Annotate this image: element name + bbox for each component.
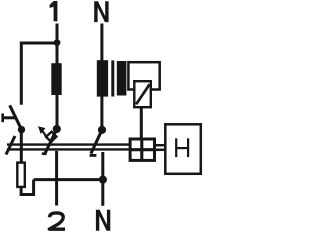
crossed square horizontal bar — [130, 148, 154, 151]
test resistor R1 — [17, 163, 25, 187]
neutral blade foot tick — [90, 154, 97, 157]
wire: test branch from node A — [21, 43, 57, 105]
wire: test return to neutral — [34, 178, 104, 181]
relay diagonal — [136, 84, 149, 104]
node A junction dot — [54, 39, 61, 46]
differential relay (rect with diagonal) — [134, 81, 151, 107]
trip arrow shaft — [42, 130, 47, 137]
thermal overcurrent element F1 (filled rectangle) — [51, 63, 61, 95]
wire: neutral contact to terminal N — [101, 152, 104, 206]
CT secondary housing square — [128, 62, 159, 89]
wire: relay to trip mechanism — [140, 107, 143, 138]
test button plate — [1, 113, 4, 122]
neutral junction dot (test return) — [99, 176, 107, 184]
wire: phase terminal 1 down — [56, 24, 59, 64]
CT secondary winding bar — [117, 61, 127, 96]
RCBO (1P+N residual current breaker with overcurrent protection) wiring schematic — [0, 0, 204, 232]
wire: resistor bottom loop — [21, 180, 33, 195]
wire: test contact to resistor — [20, 130, 23, 162]
terminal label N (top) — [94, 1, 108, 22]
crossed square vertical bar — [140, 139, 143, 160]
wire: phase element to contact — [56, 95, 59, 130]
handle box H — [165, 124, 201, 174]
test button pusher — [2, 116, 17, 119]
wire: phase contact to terminal 2 — [55, 151, 58, 206]
terminal label 2 — [49, 213, 65, 229]
neutral contact blade (open) — [91, 130, 102, 154]
trip latch (tilted open square tail) — [46, 132, 56, 142]
wire: neutral terminal N down — [100, 24, 103, 62]
CT core line — [111, 60, 114, 96]
CT primary winding bar (neutral) — [97, 60, 108, 96]
linkage to handle (upper) — [156, 144, 165, 147]
linkage to handle (lower) — [156, 149, 165, 152]
trip mechanism crossed square — [130, 139, 154, 160]
terminal label N (bottom) — [96, 210, 110, 231]
mechanical linkage end slash — [6, 136, 15, 155]
handle label H — [176, 138, 188, 157]
test contact pivot dot — [18, 126, 25, 133]
mechanical linkage double line (upper) — [7, 143, 130, 145]
phase contact blade (open) — [44, 129, 57, 155]
trip arrow head — [38, 126, 45, 134]
test contact blade (open) — [10, 105, 22, 129]
phase blade foot tick — [42, 152, 47, 155]
phase contact pivot dot — [53, 125, 61, 133]
mechanical linkage double line (lower) — [7, 148, 130, 150]
terminal label 1 — [50, 1, 58, 21]
wire: neutral contact upper — [100, 97, 103, 130]
neutral contact pivot dot — [98, 126, 106, 134]
